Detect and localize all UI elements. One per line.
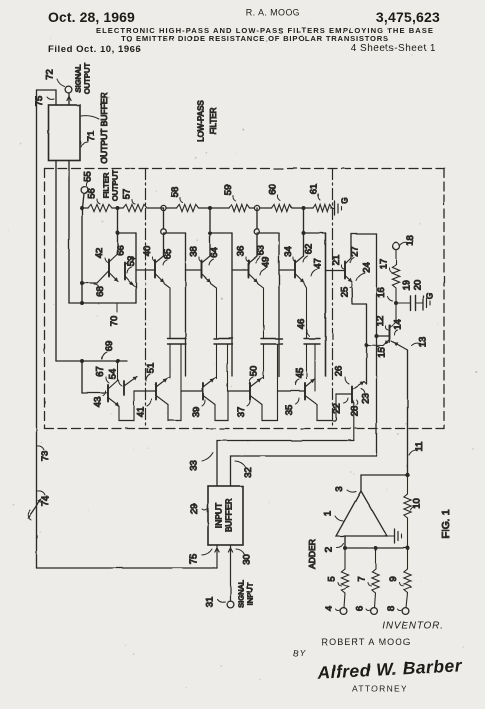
label FILTER OUTPUT xyxy=(102,170,120,202)
svg-text:74: 74 xyxy=(40,496,51,507)
svg-text:14: 14 xyxy=(393,319,404,330)
terminal 8 xyxy=(402,608,409,615)
label 45 xyxy=(295,368,306,385)
label 67 xyxy=(95,366,109,383)
patent header text xyxy=(48,8,440,56)
svg-text:ADDER: ADDER xyxy=(307,539,317,569)
svg-text:40: 40 xyxy=(142,246,153,257)
svg-text:INPUT: INPUT xyxy=(246,582,255,605)
svg-text:2: 2 xyxy=(324,547,335,552)
label 18 xyxy=(400,235,416,246)
svg-text:64: 64 xyxy=(209,247,220,258)
svg-text:75: 75 xyxy=(34,96,45,107)
label 75 top xyxy=(34,96,54,107)
svg-text:58: 58 xyxy=(170,187,181,198)
svg-text:INVENTOR.: INVENTOR. xyxy=(382,621,443,632)
resistor 9 xyxy=(404,548,411,608)
label 66 xyxy=(116,245,127,256)
svg-text:SIGNAL: SIGNAL xyxy=(74,65,83,93)
wire adder apex to node 11 xyxy=(361,473,410,491)
label 58 xyxy=(170,187,183,203)
svg-text:23: 23 xyxy=(361,393,372,404)
label 8 xyxy=(386,606,402,611)
transistor Q42 ladder upper-1 xyxy=(82,208,136,303)
label 51 xyxy=(146,363,157,381)
transistor Q34 ladder upper-5 xyxy=(279,208,326,376)
svg-text:36: 36 xyxy=(236,246,247,257)
svg-text:22: 22 xyxy=(332,403,343,414)
label 12 xyxy=(375,316,388,330)
svg-text:INPUT: INPUT xyxy=(214,503,224,529)
svg-text:4: 4 xyxy=(324,606,335,611)
svg-text:Filed Oct. 10, 1966: Filed Oct. 10, 1966 xyxy=(48,44,141,55)
resistor 58 xyxy=(166,204,210,211)
label 64 xyxy=(209,247,220,265)
label 35 xyxy=(284,398,299,415)
label 55 xyxy=(83,171,94,185)
label 56 xyxy=(87,188,101,204)
label 6 xyxy=(355,606,371,611)
svg-text:37: 37 xyxy=(236,407,247,418)
wire 69 bias xyxy=(56,359,127,363)
wire emitter rail stage1 xyxy=(164,284,170,339)
svg-text:16: 16 xyxy=(376,287,387,298)
svg-text:39: 39 xyxy=(191,407,202,418)
resistor 7 xyxy=(372,548,379,608)
ground adder xyxy=(387,529,402,543)
svg-text:12: 12 xyxy=(375,316,386,327)
wire Q21 collector rect xyxy=(351,234,390,456)
svg-text:71: 71 xyxy=(86,131,97,142)
feedback wire bottom run xyxy=(37,567,218,569)
transistor Q66 ladder upper-1b xyxy=(125,258,136,287)
capacitor C44 stage1 xyxy=(168,339,187,392)
footer inventor block xyxy=(293,621,444,659)
label 54 xyxy=(108,369,123,386)
label 15 xyxy=(377,346,388,357)
resistor 60 xyxy=(260,204,304,211)
label 65 xyxy=(163,249,174,265)
node rail-1 xyxy=(116,206,120,210)
arrowhead pin 75 input xyxy=(215,545,219,568)
feedback wire 73 left frame xyxy=(36,90,38,568)
label 31 xyxy=(205,597,226,608)
capacitor C-stage3 xyxy=(261,339,283,392)
capacitor C19/C20 and ground xyxy=(396,296,430,311)
capacitor C46 stage4 xyxy=(304,339,320,392)
svg-text:OUTPUT: OUTPUT xyxy=(83,63,92,95)
wire adder base to bus xyxy=(344,536,346,548)
label 3 xyxy=(334,486,356,492)
svg-text:OUTPUT BUFFER: OUTPUT BUFFER xyxy=(99,92,109,163)
svg-text:59: 59 xyxy=(223,185,234,196)
svg-text:47: 47 xyxy=(313,258,324,269)
label 72 xyxy=(45,69,65,86)
wire emitter rail stage3 xyxy=(258,284,264,339)
svg-text:3: 3 xyxy=(334,486,345,491)
wire 70 bias xyxy=(69,303,136,312)
resistor 57 xyxy=(118,204,164,211)
svg-text:49: 49 xyxy=(261,257,272,268)
wire terminal 55 lead xyxy=(83,194,85,209)
transistor Q37 ladder lower-4 xyxy=(228,377,278,421)
label 27 xyxy=(350,246,361,262)
resistor 59 xyxy=(210,204,255,211)
wire output buffer bottom pin B xyxy=(68,161,70,304)
svg-text:38: 38 xyxy=(189,246,200,257)
svg-text:21: 21 xyxy=(331,255,342,266)
svg-text:OUTPUT: OUTPUT xyxy=(111,170,120,202)
terminal 4 xyxy=(340,608,347,615)
wire left bias rail C xyxy=(80,208,84,305)
label 19 xyxy=(402,280,413,291)
label 34 xyxy=(283,246,296,262)
label 46 xyxy=(296,319,310,336)
svg-text:25: 25 xyxy=(340,287,351,298)
node rail-2 xyxy=(161,205,166,210)
svg-text:6: 6 xyxy=(355,606,366,611)
transistor Q26 xyxy=(336,382,367,404)
label 75 input xyxy=(189,549,213,564)
svg-text:34: 34 xyxy=(283,246,294,257)
wire 32 input buffer to driver xyxy=(231,456,377,486)
label 42 xyxy=(94,248,109,263)
svg-text:65: 65 xyxy=(163,249,174,260)
terminal 55 filter output xyxy=(81,187,88,194)
svg-text:17: 17 xyxy=(379,259,390,270)
label 22 xyxy=(332,398,349,414)
label 30 xyxy=(236,549,253,565)
svg-text:73: 73 xyxy=(40,451,51,462)
wire pin to signal output terminal xyxy=(68,94,70,106)
label 47 xyxy=(311,258,324,276)
terminal 18 xyxy=(393,243,400,250)
transistor Q40 ladder upper-2 xyxy=(136,208,186,376)
inner dash-dot partition right xyxy=(332,169,334,428)
label SIGNAL OUTPUT xyxy=(74,63,92,95)
transistor Q21 xyxy=(326,258,352,282)
svg-text:43: 43 xyxy=(93,397,104,408)
label 70 xyxy=(109,316,120,327)
transistor Q41 ladder lower-2 xyxy=(134,377,181,421)
wire emitter rail stage4 xyxy=(304,284,307,339)
svg-text:68: 68 xyxy=(95,286,106,297)
label 9 xyxy=(388,576,403,586)
label ADDER xyxy=(307,539,317,569)
label G top xyxy=(341,197,350,203)
svg-text:31: 31 xyxy=(205,597,216,608)
label 49 xyxy=(260,257,272,275)
svg-text:28: 28 xyxy=(350,406,361,417)
svg-text:41: 41 xyxy=(136,407,147,418)
svg-text:TO EMITTER DIODE RESISTANCE OF: TO EMITTER DIODE RESISTANCE OF BIPOLAR T… xyxy=(121,34,389,43)
svg-text:ROBERT A MOOG: ROBERT A MOOG xyxy=(322,637,412,647)
label 71 OUTPUT BUFFER xyxy=(81,92,109,163)
transistor Q38 ladder upper-3 xyxy=(186,208,233,376)
svg-text:1: 1 xyxy=(323,511,334,516)
label SIGNAL INPUT xyxy=(237,580,255,608)
svg-text:70: 70 xyxy=(109,316,120,327)
label 13 xyxy=(411,337,429,348)
label 73 xyxy=(38,446,52,461)
svg-text:LOW-PASS: LOW-PASS xyxy=(197,100,206,142)
svg-text:15: 15 xyxy=(377,347,388,358)
svg-text:7: 7 xyxy=(357,576,368,581)
label 50 xyxy=(249,366,260,383)
wire stage5 right rail lower xyxy=(325,233,327,376)
wire output buffer bottom pin A xyxy=(55,161,57,362)
label 32 xyxy=(235,461,254,478)
transistor Q36 ladder upper-4 xyxy=(232,208,279,376)
inner dash-dot partition left (low-pass filter boundary) xyxy=(145,169,147,428)
node rail-4 xyxy=(254,205,259,210)
svg-text:BY: BY xyxy=(293,648,307,658)
svg-text:69: 69 xyxy=(104,341,115,352)
wire emitter rail stage2 xyxy=(211,284,217,339)
node rail-3 xyxy=(208,206,212,210)
label 10 xyxy=(411,498,423,510)
label 17 xyxy=(379,259,394,273)
label 36 xyxy=(236,246,249,262)
label 11 xyxy=(409,442,425,455)
svg-text:4 Sheets-Sheet 1: 4 Sheets-Sheet 1 xyxy=(351,43,436,54)
label G right xyxy=(426,293,435,299)
label 25 xyxy=(340,284,353,297)
svg-text:51: 51 xyxy=(146,363,157,374)
svg-text:FIG. 1: FIG. 1 xyxy=(440,509,452,538)
label 16 xyxy=(376,287,393,301)
svg-text:5: 5 xyxy=(327,576,338,581)
svg-text:8: 8 xyxy=(386,606,397,611)
op-amp adder triangle A1 xyxy=(336,491,387,536)
label 63 xyxy=(256,245,267,263)
svg-text:19: 19 xyxy=(402,280,413,291)
wire 11 to adder xyxy=(407,350,409,475)
label 14 xyxy=(393,319,404,335)
label 59 xyxy=(223,185,236,201)
svg-text:75: 75 xyxy=(189,554,200,565)
capacitor C45 stage2 xyxy=(214,339,233,392)
label 40 xyxy=(142,246,155,262)
svg-text:R. A. MOOG: R. A. MOOG xyxy=(246,8,301,18)
node rail-5 xyxy=(302,206,306,210)
svg-text:3,475,623: 3,475,623 xyxy=(376,9,440,25)
svg-text:ATTORNEY: ATTORNEY xyxy=(352,684,408,694)
svg-text:26: 26 xyxy=(334,366,345,377)
label 24 xyxy=(356,262,373,281)
label 29 xyxy=(189,504,207,515)
transistor Q12/Q14 xyxy=(367,303,408,350)
wire Q21 emitter down xyxy=(352,282,369,384)
resistor 10 xyxy=(404,475,411,548)
label 28 xyxy=(350,400,361,416)
wire 33 input buffer to ladder xyxy=(217,441,354,487)
svg-text:33: 33 xyxy=(189,460,200,471)
label 39 xyxy=(191,400,205,417)
label 26 xyxy=(334,366,350,384)
svg-text:Oct. 28, 1969: Oct. 28, 1969 xyxy=(48,9,135,25)
svg-text:FILTER: FILTER xyxy=(209,107,218,134)
label 53 xyxy=(126,256,137,273)
label 7 xyxy=(357,576,372,586)
svg-text:29: 29 xyxy=(189,504,200,515)
svg-text:SIGNAL: SIGNAL xyxy=(237,580,246,608)
svg-text:72: 72 xyxy=(45,69,56,80)
resistor 17 xyxy=(392,250,399,305)
svg-text:30: 30 xyxy=(242,554,253,565)
arrowhead pin 30 input xyxy=(228,545,232,601)
svg-text:55: 55 xyxy=(83,171,94,182)
label INPUT BUFFER xyxy=(214,499,234,533)
outer dashed filter enclosure box xyxy=(45,169,445,429)
svg-text:57: 57 xyxy=(122,189,133,200)
svg-text:42: 42 xyxy=(94,248,105,259)
label 68 base wire xyxy=(94,284,106,297)
svg-text:13: 13 xyxy=(418,337,429,348)
label 62 xyxy=(303,244,315,262)
resistor 61 xyxy=(304,204,333,211)
svg-text:54: 54 xyxy=(108,369,119,380)
svg-text:24: 24 xyxy=(362,262,373,273)
arrowhead into output buffer xyxy=(67,97,71,101)
ground G top xyxy=(331,201,342,215)
label 60 xyxy=(268,184,281,200)
wire Q26 collector down xyxy=(353,403,355,441)
label 43 xyxy=(93,391,106,407)
svg-text:FILTER: FILTER xyxy=(102,172,111,198)
svg-text:35: 35 xyxy=(284,405,295,416)
svg-text:9: 9 xyxy=(388,576,399,581)
label 23 xyxy=(361,389,372,404)
transistor Q43 ladder lower-1 xyxy=(82,361,134,421)
svg-text:66: 66 xyxy=(116,245,127,256)
label 69 xyxy=(102,341,115,359)
label 41 xyxy=(136,399,152,417)
terminal 72 signal output xyxy=(65,86,72,93)
svg-text:46: 46 xyxy=(296,319,307,330)
label 37 xyxy=(236,400,250,417)
label LOW-PASS FILTER xyxy=(197,100,219,142)
svg-text:56: 56 xyxy=(87,188,98,199)
transistor Q39 ladder lower-3 xyxy=(181,377,228,421)
svg-text:18: 18 xyxy=(405,235,416,246)
svg-text:62: 62 xyxy=(304,244,315,255)
label 38 xyxy=(189,246,202,262)
resistor 5 xyxy=(341,548,348,608)
svg-text:61: 61 xyxy=(309,184,320,195)
svg-text:BUFFER: BUFFER xyxy=(224,499,234,533)
label FIG. 1 xyxy=(440,509,452,538)
label 33 xyxy=(189,453,214,471)
label 1 xyxy=(323,511,344,521)
svg-text:45: 45 xyxy=(295,368,306,379)
svg-text:G: G xyxy=(341,197,350,203)
svg-text:G: G xyxy=(426,293,435,299)
terminal 31 signal input xyxy=(227,601,234,608)
svg-text:63: 63 xyxy=(256,245,267,256)
svg-text:67: 67 xyxy=(95,366,106,377)
label 61 xyxy=(309,184,320,200)
svg-text:20: 20 xyxy=(413,280,424,291)
label 21 xyxy=(331,255,344,269)
svg-text:50: 50 xyxy=(249,366,260,377)
wire output-buffer left pin loop to frame xyxy=(37,90,57,105)
transistor Q35 ladder lower-5 xyxy=(278,379,318,405)
output buffer U1 box xyxy=(49,105,81,161)
resistor 56 xyxy=(80,204,118,211)
potentiometer arrow 74 xyxy=(28,499,41,520)
input buffer U2 box xyxy=(208,486,243,545)
svg-text:32: 32 xyxy=(243,467,254,478)
terminal 6 xyxy=(371,608,378,615)
label 20 xyxy=(413,280,424,291)
attorney signature xyxy=(316,655,463,693)
summing bus xyxy=(343,546,410,550)
label 5 xyxy=(327,576,342,586)
wire Q35 collector to Q26 base xyxy=(317,394,336,421)
label 4 xyxy=(324,606,340,611)
svg-text:60: 60 xyxy=(268,184,279,195)
label 2 xyxy=(324,544,344,553)
label 57 xyxy=(122,189,136,204)
svg-text:53: 53 xyxy=(126,256,137,267)
transistor Q54 ladder lower-1b xyxy=(124,377,137,396)
label 74 xyxy=(38,491,52,506)
